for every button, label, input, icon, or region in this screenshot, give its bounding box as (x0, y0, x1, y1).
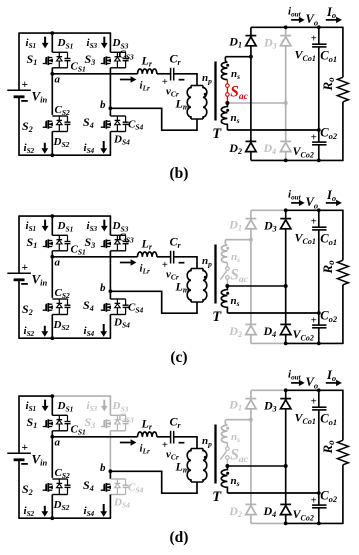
svg-text:DS2: DS2 (53, 499, 70, 512)
diode D4 (280, 503, 291, 505)
svg-text:Co1: Co1 (320, 232, 337, 247)
wire S3 source to node b (109, 431, 111, 472)
svg-text:iS2: iS2 (24, 142, 35, 155)
wire S1 drain lead (51, 396, 53, 415)
transistor S2 symbol (43, 305, 46, 311)
svg-text:S4: S4 (83, 298, 94, 313)
wire node b to transformer bottom (110, 471, 197, 493)
node capacitor midpoint (317, 311, 321, 315)
node top rail D3 (284, 25, 288, 29)
wire centre tap to D3 column (227, 285, 285, 287)
svg-text:Co2: Co2 (320, 126, 338, 141)
svg-text:Io: Io (326, 188, 336, 203)
body diode D_S4 and capacitor C_S4 loop (110, 478, 125, 480)
wire S3 drain lead (109, 396, 111, 415)
svg-text:ns: ns (231, 295, 240, 308)
wire bottom rail (19, 337, 111, 339)
winding ns upper (221, 57, 227, 80)
resistor Ro (342, 210, 344, 261)
svg-text:Io: Io (326, 368, 336, 383)
svg-text:Ro: Ro (320, 77, 336, 92)
svg-text:T: T (212, 489, 222, 505)
resistor Ro (342, 27, 344, 78)
label iLr and arrow (120, 79, 132, 81)
node centre tap / D3 column junction (284, 101, 288, 105)
svg-text:Vo: Vo (306, 375, 319, 390)
svg-text:iS4: iS4 (84, 325, 95, 338)
svg-text:+: + (22, 262, 29, 274)
wire S2 source to bottom rail (51, 315, 53, 339)
svg-text:Vin: Vin (32, 89, 48, 105)
node a (50, 255, 54, 259)
label iLr and arrow (120, 262, 132, 264)
svg-text:S3: S3 (85, 235, 96, 250)
node D1 anode junction (249, 418, 253, 422)
svg-text:Lr: Lr (141, 236, 153, 251)
transistor S2 symbol (43, 122, 46, 128)
wire Cr to transformer primary (174, 74, 197, 86)
wire Cr to transformer primary (174, 437, 197, 449)
svg-text:CS4: CS4 (128, 302, 144, 315)
svg-text:VCo2: VCo2 (293, 507, 314, 522)
svg-text:VCo2: VCo2 (293, 327, 314, 342)
inductor Lr (138, 252, 157, 257)
inductor Lm and winding np (191, 85, 203, 87)
winding ns upper top wire (225, 419, 251, 421)
wire node a to S2 (51, 437, 53, 478)
node bottom rail Co2 (317, 342, 321, 346)
svg-text:CS3: CS3 (119, 49, 135, 62)
svg-text:Sac: Sac (230, 446, 248, 465)
svg-text:(b): (b) (170, 165, 189, 182)
svg-text:Sac: Sac (230, 83, 248, 102)
body diode D_S3 and capacitor C_S3 loop (110, 51, 125, 53)
wire top rail right segment (52, 395, 112, 397)
node bottom rail / S2 leg junction (50, 516, 54, 520)
svg-text:Ro: Ro (320, 440, 336, 455)
transistor S3 symbol (101, 421, 104, 427)
svg-text:iS3: iS3 (87, 400, 98, 413)
svg-text:iS4: iS4 (84, 142, 95, 155)
diode D4 (280, 140, 291, 142)
capacitor Co1 (318, 27, 320, 44)
capacitor Co2 (318, 493, 320, 505)
svg-text:+: + (311, 315, 317, 326)
svg-text:VCo1: VCo1 (295, 411, 316, 426)
svg-text:iout: iout (288, 188, 302, 201)
wire left rail lower (18, 280, 20, 339)
wire node b to S4 (109, 291, 111, 299)
svg-text:DS1: DS1 (57, 37, 74, 50)
inductor Lm and winding np (191, 268, 203, 270)
wire S2 source to bottom rail (51, 495, 53, 519)
winding ns upper top wire (225, 56, 251, 58)
diode D1 column (250, 390, 252, 398)
circuit (c) full-bridge LLC, Sac open, D3/D4 active (7, 188, 348, 345)
svg-text:S2: S2 (22, 302, 33, 317)
svg-text:Co2: Co2 (320, 489, 338, 504)
capacitor Co1 (318, 210, 320, 227)
wire node b to transformer bottom (110, 291, 197, 313)
wire top rail segment D1-D3 (251, 26, 286, 28)
node centre tap / D3 column junction (284, 464, 288, 468)
svg-text:np: np (202, 435, 212, 448)
wire Cr to transformer primary (174, 257, 197, 269)
svg-text:Cr: Cr (170, 415, 182, 430)
svg-text:Lm: Lm (175, 96, 190, 111)
diode D3 column (285, 27, 287, 35)
circuit (d) half-bridge LLC, S3/S4 leg inactive (7, 368, 348, 526)
transistor S3 symbol (101, 241, 104, 247)
transistor S4 symbol (101, 305, 104, 311)
svg-text:ns: ns (231, 251, 240, 264)
svg-text:iS3: iS3 (87, 220, 98, 233)
diode D3 (280, 35, 291, 37)
wire node a to resonant tank (52, 73, 137, 75)
wire Lr to Cr (157, 73, 171, 75)
wire S1 source to node a (51, 251, 53, 258)
svg-text:DS1: DS1 (57, 400, 74, 413)
body diode D_S1 and capacitor C_S1 loop (52, 51, 67, 53)
diode D2 (246, 140, 257, 142)
wire S4 source to bottom rail (109, 315, 111, 339)
node b (109, 469, 113, 473)
body diode D_S3 and capacitor C_S3 loop (110, 234, 125, 236)
transformer core (214, 62, 216, 121)
wire bottom rail output (286, 159, 343, 161)
transistor S3 symbol (101, 58, 104, 64)
node D1 anode junction (249, 238, 253, 242)
resistor Ro (342, 390, 344, 441)
svg-text:D3: D3 (263, 398, 277, 413)
svg-text:+: + (22, 442, 29, 454)
wire S2 source to bottom rail (51, 132, 53, 156)
node a (50, 72, 54, 76)
svg-text:D1: D1 (228, 397, 242, 412)
svg-text:D1: D1 (228, 34, 242, 49)
wire Lr to Cr (157, 436, 171, 438)
diode D2 (246, 323, 257, 325)
svg-text:ns: ns (231, 431, 240, 444)
svg-text:D2: D2 (228, 141, 242, 156)
wire S1 source to node a (51, 431, 53, 438)
svg-text:+: + (311, 132, 317, 143)
svg-text:Lr: Lr (141, 416, 153, 431)
svg-text:iLr: iLr (140, 442, 150, 455)
node bottom rail D4 (284, 342, 288, 346)
node bottom rail D4 (284, 159, 288, 163)
wire bottom rail output (286, 522, 343, 524)
wire top rail right segment (52, 215, 112, 217)
wire top rail left segment (19, 395, 52, 397)
node b (109, 106, 113, 110)
battery Vin symbol (7, 272, 31, 274)
wire S3 source to node b (109, 251, 111, 291)
svg-text:VCo2: VCo2 (293, 144, 314, 159)
svg-text:DS2: DS2 (53, 136, 70, 149)
diode D3 column (285, 210, 287, 218)
svg-text:+: + (22, 79, 29, 91)
svg-text:iout: iout (288, 368, 302, 381)
transformer core (214, 425, 216, 484)
wire top rail segment D1-D3 (251, 389, 286, 391)
svg-text:S4: S4 (83, 115, 94, 130)
svg-text:b: b (100, 99, 106, 111)
wire ns lower to capacitor midpoint (227, 492, 318, 494)
wire node a to resonant tank (52, 256, 137, 258)
svg-text:a: a (55, 73, 61, 85)
svg-text:Vo: Vo (306, 195, 319, 210)
svg-text:+: + (311, 217, 317, 228)
wire Lr to Cr (157, 256, 171, 258)
node Vo (317, 388, 321, 392)
wire S1 source to node a (51, 68, 53, 75)
wire top rail output (286, 26, 343, 28)
wire node b to S4 (109, 108, 111, 116)
node top rail D3 (284, 208, 288, 212)
node Vo (317, 25, 321, 29)
svg-text:S1: S1 (27, 235, 38, 250)
svg-text:CS2: CS2 (55, 287, 71, 300)
svg-text:CS1: CS1 (71, 244, 86, 257)
svg-text:a: a (55, 436, 61, 448)
svg-text:S1: S1 (27, 52, 38, 67)
svg-text:D3: D3 (263, 35, 277, 50)
diode D1 column (250, 210, 252, 218)
capacitor Cr (170, 431, 172, 444)
body diode D_S1 and capacitor C_S1 loop (52, 414, 67, 416)
svg-text:D4: D4 (263, 141, 277, 156)
wire S4 source to bottom rail (109, 132, 111, 156)
svg-text:DS4: DS4 (113, 133, 130, 146)
diode D1 (246, 398, 257, 400)
diode D1 (246, 218, 257, 220)
switch Sac (226, 80, 228, 84)
svg-text:iS1: iS1 (26, 37, 37, 50)
svg-text:Lm: Lm (175, 279, 190, 294)
wire ns lower to capacitor midpoint (227, 312, 318, 314)
diode D4 (280, 323, 291, 325)
svg-text:Sac: Sac (230, 266, 248, 285)
node D1 anode junction (249, 55, 253, 59)
svg-text:iLr: iLr (140, 262, 150, 275)
wire left rail upper (18, 395, 20, 453)
body diode D_S1 and capacitor C_S1 loop (52, 234, 67, 236)
svg-text:CS4: CS4 (128, 119, 144, 132)
wire S3 source to node b (109, 68, 111, 109)
node capacitor midpoint (317, 491, 321, 495)
node top rail / S1 leg junction (50, 214, 54, 218)
svg-text:ns: ns (231, 112, 240, 125)
svg-text:S2: S2 (22, 119, 33, 134)
wire left rail upper (18, 215, 20, 273)
svg-text:iS1: iS1 (26, 220, 37, 233)
switch Sac (226, 263, 228, 267)
node b (109, 289, 113, 293)
winding ns upper top wire (225, 239, 251, 241)
wire node a to resonant tank (52, 436, 137, 438)
transistor S1 symbol (43, 58, 46, 64)
wire centre tap to D3 column (227, 102, 285, 104)
node centre tap / D3 column junction (284, 284, 288, 288)
wire bottom rail output (286, 342, 343, 344)
diode D3 (280, 218, 291, 220)
svg-text:S3: S3 (85, 415, 96, 430)
inductor Lm and winding np (191, 448, 203, 450)
svg-text:CS2: CS2 (55, 467, 71, 480)
svg-text:b: b (100, 462, 106, 474)
node bottom rail D4 (284, 522, 288, 526)
node centre tap (225, 464, 229, 468)
wire S4 source to bottom rail (109, 495, 111, 519)
svg-text:CS3: CS3 (119, 232, 135, 245)
wire top rail left segment (19, 215, 52, 217)
svg-text:+: + (311, 34, 317, 45)
wire S1 drain lead (51, 216, 53, 235)
svg-text:b: b (100, 282, 106, 294)
wire bottom rail segment D2-D4 (251, 522, 286, 524)
winding ns lower (221, 466, 227, 493)
svg-text:D4: D4 (263, 504, 277, 519)
body diode D_S3 and capacitor C_S3 loop (110, 414, 125, 416)
svg-text:Cr: Cr (170, 52, 182, 67)
node bottom rail / S2 leg junction (50, 153, 54, 157)
node Vo (317, 208, 321, 212)
svg-text:D1: D1 (228, 217, 242, 232)
diode D1 (246, 35, 257, 37)
svg-text:CS1: CS1 (71, 61, 86, 74)
svg-text:iS3: iS3 (87, 37, 98, 50)
svg-text:VCo1: VCo1 (295, 48, 316, 63)
svg-text:Lr: Lr (141, 53, 153, 68)
capacitor Cr (170, 251, 172, 264)
wire node a to S2 (51, 257, 53, 298)
wire top rail output (286, 209, 343, 211)
svg-text:T: T (212, 126, 222, 142)
svg-text:ns: ns (231, 475, 240, 488)
wire node b to transformer bottom (110, 108, 197, 130)
inductor Lr (138, 69, 157, 74)
capacitor Co1 (318, 390, 320, 407)
svg-text:iS1: iS1 (26, 400, 37, 413)
svg-text:Co2: Co2 (320, 309, 338, 324)
svg-text:T: T (212, 309, 222, 325)
svg-text:Co1: Co1 (320, 412, 337, 427)
svg-text:CS3: CS3 (119, 412, 135, 425)
node capacitor midpoint (317, 128, 321, 132)
battery Vin symbol (7, 452, 31, 454)
svg-text:D3: D3 (263, 218, 277, 233)
svg-text:DS4: DS4 (113, 316, 130, 329)
winding ns upper (221, 240, 227, 263)
wire top rail right segment (52, 32, 112, 34)
wire left rail lower (18, 97, 20, 156)
svg-text:S3: S3 (85, 52, 96, 67)
svg-text:+: + (311, 397, 317, 408)
switch Sac (226, 443, 228, 447)
svg-text:VCo1: VCo1 (295, 231, 316, 246)
body diode D_S2 and capacitor C_S2 loop (52, 115, 67, 117)
svg-text:np: np (202, 72, 212, 85)
svg-text:+: + (311, 495, 317, 506)
svg-text:D2: D2 (228, 324, 242, 339)
diode D3 (280, 398, 291, 400)
diode D2 (246, 503, 257, 505)
svg-text:CS2: CS2 (55, 104, 71, 117)
node centre tap (225, 284, 229, 288)
node bottom rail Co2 (317, 159, 321, 163)
svg-text:(c): (c) (170, 349, 187, 366)
svg-text:DS4: DS4 (113, 496, 130, 509)
svg-text:Vin: Vin (32, 452, 48, 468)
wire centre tap to D3 column (227, 465, 285, 467)
capacitor Co2 (318, 130, 320, 142)
svg-text:Lm: Lm (175, 459, 190, 474)
svg-text:iS2: iS2 (24, 325, 35, 338)
capacitor Co2 (318, 313, 320, 325)
svg-text:a: a (55, 256, 61, 268)
transformer core (214, 245, 216, 304)
capacitor Cr (170, 68, 172, 81)
wire node a to S2 (51, 74, 53, 115)
wire bottom rail (19, 517, 111, 519)
wire bottom rail (19, 154, 111, 156)
svg-text:Ro: Ro (320, 260, 336, 275)
svg-text:iLr: iLr (140, 79, 150, 92)
svg-text:Vo: Vo (306, 12, 319, 27)
wire left rail lower (18, 460, 20, 519)
svg-text:CS4: CS4 (128, 482, 144, 495)
transistor S2 symbol (43, 485, 46, 491)
svg-text:iS4: iS4 (84, 505, 95, 518)
node a (50, 435, 54, 439)
wire S3 drain lead (109, 33, 111, 52)
node centre tap (225, 101, 229, 105)
inductor Lr (138, 432, 157, 437)
node top rail / S1 leg junction (50, 394, 54, 398)
svg-text:D2: D2 (228, 504, 242, 519)
svg-text:iout: iout (288, 5, 302, 18)
svg-text:DS1: DS1 (57, 220, 74, 233)
transistor S1 symbol (43, 241, 46, 247)
transistor S4 symbol (101, 122, 104, 128)
transistor S1 symbol (43, 421, 46, 427)
svg-text:S4: S4 (83, 478, 94, 493)
wire ns lower to capacitor midpoint (227, 129, 318, 131)
svg-text:Cr: Cr (170, 235, 182, 250)
svg-text:Io: Io (326, 5, 336, 20)
node bottom rail Co2 (317, 522, 321, 526)
diode D1 column (250, 27, 252, 35)
wire top rail output (286, 389, 343, 391)
winding ns lower (221, 103, 227, 130)
svg-text:Vin: Vin (32, 272, 48, 288)
wire node b to S4 (109, 471, 111, 479)
body diode D_S2 and capacitor C_S2 loop (52, 478, 67, 480)
battery Vin symbol (7, 89, 31, 91)
svg-text:np: np (202, 255, 212, 268)
winding ns lower (221, 286, 227, 313)
svg-text:D4: D4 (263, 324, 277, 339)
svg-text:ns: ns (231, 68, 240, 81)
diode D3 column (285, 390, 287, 398)
svg-text:Co1: Co1 (320, 49, 337, 64)
wire S3 drain lead (109, 216, 111, 235)
svg-text:DS2: DS2 (53, 319, 70, 332)
body diode D_S4 and capacitor C_S4 loop (110, 298, 125, 300)
svg-text:iS2: iS2 (24, 505, 35, 518)
wire bottom rail segment D2-D4 (251, 342, 286, 344)
